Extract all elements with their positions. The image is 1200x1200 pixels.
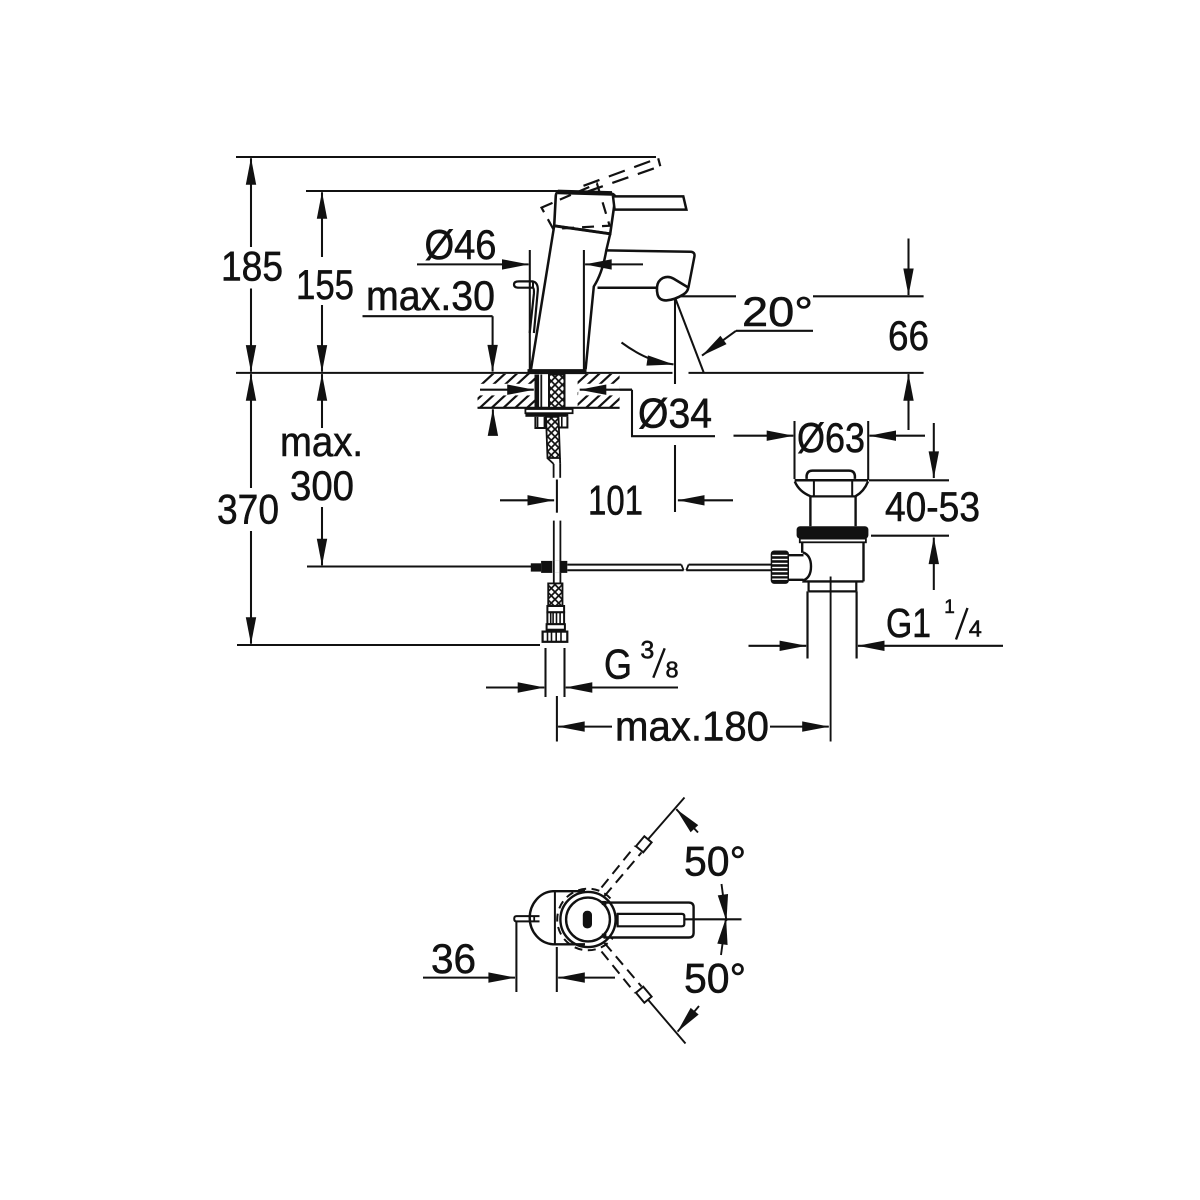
dimension 36 xyxy=(515,921,517,992)
drain inner cylinder lines xyxy=(813,482,815,497)
dashed handle body (raised position) xyxy=(542,184,610,229)
svg-text:Ø46: Ø46 xyxy=(425,221,497,268)
svg-text:Ø34: Ø34 xyxy=(638,390,712,437)
svg-text:G: G xyxy=(604,641,632,688)
faucet base plinth xyxy=(528,369,587,374)
hose ferrule xyxy=(547,606,564,612)
extension lines for diameter 63 xyxy=(793,421,795,479)
dashed lever rotated down 50 deg xyxy=(602,952,636,994)
drain flange top xyxy=(795,479,869,482)
pull rod after break xyxy=(689,564,772,566)
wire reference line L6 max depth level xyxy=(307,565,531,567)
angle 50 deg upper xyxy=(676,809,698,832)
svg-text:1: 1 xyxy=(944,597,955,618)
extension line flange top xyxy=(869,479,949,481)
pull rod below counter xyxy=(534,375,539,409)
wire reference line L3 countertop level xyxy=(236,372,673,374)
dimension max. 300 xyxy=(321,374,323,428)
faucet body right edge with neck fillet xyxy=(586,234,611,369)
drain washer under gasket xyxy=(800,539,866,543)
mounting nut body right xyxy=(559,417,568,428)
20 degree angle arc with arrow xyxy=(622,343,669,364)
svg-text:max.: max. xyxy=(280,418,363,465)
top view handle outer circle xyxy=(560,892,615,947)
dimension 40-53 drain clamping range xyxy=(933,423,935,478)
spout outlet 20 degree slant line xyxy=(675,298,704,373)
svg-text:G1: G1 xyxy=(886,600,931,646)
dashed lever rotated up 50 deg xyxy=(602,846,636,888)
svg-text:370: 370 xyxy=(217,486,279,533)
dimension diameter 34 with leader xyxy=(480,389,534,391)
hose union fitting at crossing xyxy=(531,563,541,571)
dimension 155 xyxy=(321,192,323,257)
top view bar corner ticks xyxy=(602,901,607,905)
hose taper xyxy=(548,458,554,464)
wire reference line L2 spout body top level xyxy=(306,190,564,192)
top view faucet body stadium xyxy=(530,891,585,944)
wire reference line L5 hose end level xyxy=(237,644,540,646)
svg-text:40-53: 40-53 xyxy=(885,483,980,530)
knob connector cylinder xyxy=(789,554,803,581)
G3/8 connection nut xyxy=(543,632,568,642)
svg-text:20°: 20° xyxy=(742,288,813,335)
mounting nut body left xyxy=(535,417,544,428)
braided hose tail upper xyxy=(546,417,560,458)
faucet handle body outline xyxy=(554,192,615,234)
horizontal pull rod to drain xyxy=(567,564,681,566)
hose neck xyxy=(549,630,551,632)
top view centreline right xyxy=(685,918,742,920)
dashed lever (raised position) xyxy=(584,158,659,186)
svg-text:155: 155 xyxy=(296,261,354,308)
top view lever bar xyxy=(604,903,694,938)
top view body seam line xyxy=(554,892,556,944)
dimension diameter 63 xyxy=(734,435,794,437)
upper lever extension line xyxy=(648,798,685,840)
extension lines for G 3/8 xyxy=(544,648,546,697)
wire reference line L4 spout outlet level xyxy=(675,295,736,297)
top view rear pin xyxy=(514,916,539,921)
pull rod knurled knob xyxy=(771,551,789,584)
drain stopper cap xyxy=(807,471,855,479)
diameter 34 arrows redrawn xyxy=(480,389,534,391)
handle body bottom edge thick xyxy=(554,226,610,234)
top view lever inner ridge xyxy=(618,914,685,926)
svg-text:66: 66 xyxy=(888,312,929,359)
hose centreline across break xyxy=(556,480,558,513)
top view handle inner circle xyxy=(566,898,610,942)
dimension G 3/8 hose thread xyxy=(486,686,544,688)
svg-text:3: 3 xyxy=(640,636,654,664)
dimension G1 1/4 drain thread xyxy=(749,645,807,647)
spout top and right edge xyxy=(606,250,694,287)
dimension max. 180 hose to drain distance xyxy=(558,726,612,728)
annotation max. 30 countertop thickness with leader arrow xyxy=(363,315,493,317)
top view lever slot xyxy=(583,911,592,929)
braided hose through counter xyxy=(549,375,565,409)
dimension 66 xyxy=(907,239,909,296)
extension line hose centre xyxy=(556,696,558,742)
hose collar ring xyxy=(547,624,565,630)
drain collar xyxy=(807,581,809,591)
svg-text:101: 101 xyxy=(588,477,643,524)
mounting washer xyxy=(525,409,572,413)
faucet handle body top edge xyxy=(558,192,612,194)
lower lever extension line xyxy=(648,1000,686,1044)
hose crimp ring xyxy=(547,612,564,624)
svg-text:max.30: max.30 xyxy=(366,272,495,319)
dimension 185 xyxy=(250,158,252,247)
svg-text:50°: 50° xyxy=(684,838,746,885)
svg-text:50°: 50° xyxy=(684,955,746,1002)
20 degree leader with arrow xyxy=(736,330,813,332)
pop-up waste pull rod at rear xyxy=(514,281,538,333)
hose thin tube xyxy=(553,464,555,478)
hose lower tube xyxy=(553,521,555,562)
drain tailpipe xyxy=(806,591,808,658)
drain side boss xyxy=(803,552,811,580)
svg-text:8: 8 xyxy=(665,657,678,683)
hose below union xyxy=(553,573,555,584)
countertop bottom line xyxy=(478,407,620,409)
max.30 counter bottom arrow xyxy=(492,409,494,431)
dashed lever upper end cap xyxy=(636,836,652,852)
svg-text:36: 36 xyxy=(431,935,476,982)
angle 50 deg lower xyxy=(678,1006,699,1032)
drain body bottom xyxy=(802,580,863,582)
top view dashed circle flange xyxy=(557,889,619,951)
wire reference line L1 faucet top level xyxy=(236,156,656,158)
svg-text:max.180: max.180 xyxy=(615,703,769,750)
spout bottom edge xyxy=(598,287,658,290)
drain joint line xyxy=(810,495,855,497)
mounting nut flange xyxy=(525,413,568,416)
solid lever bar xyxy=(613,196,686,209)
svg-text:185: 185 xyxy=(221,243,283,290)
dimension 370 xyxy=(250,374,252,488)
drain neck walls xyxy=(809,496,811,526)
dimension 101 xyxy=(500,499,554,501)
drain rubber gasket xyxy=(797,526,869,538)
extension lines for diameter 46 xyxy=(529,250,531,371)
svg-text:4: 4 xyxy=(969,616,982,642)
drain body walls xyxy=(801,542,803,553)
dimension diameter 46 xyxy=(417,263,529,265)
drain flange trumpet sides xyxy=(795,482,811,497)
aerator nub at spout outlet xyxy=(657,277,688,301)
svg-text:Ø63: Ø63 xyxy=(797,414,865,461)
braided hose lower section xyxy=(548,583,562,606)
drain centre rod and extension xyxy=(830,577,832,742)
white gap for dimension arrows through hatch xyxy=(477,384,536,396)
svg-text:300: 300 xyxy=(290,462,354,509)
dashed lever lower end cap xyxy=(636,987,652,1003)
spout outlet vertical extension line xyxy=(674,296,676,384)
faucet body left edge xyxy=(531,226,554,369)
extension line gasket bottom xyxy=(871,535,949,537)
